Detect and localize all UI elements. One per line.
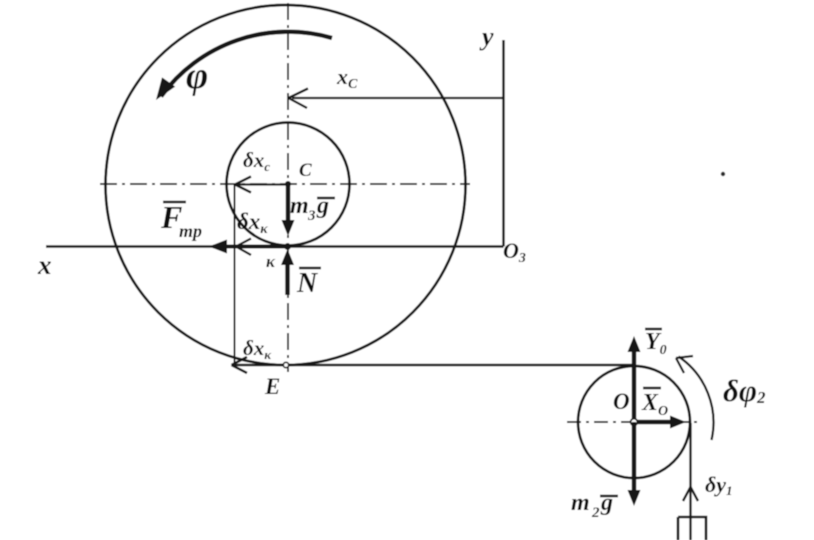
weight vector m2g	[628, 422, 641, 506]
weight block	[678, 517, 706, 540]
rope from pulley to weight	[689, 423, 691, 540]
label m2g	[571, 490, 618, 521]
svg-text:O: O	[613, 389, 630, 414]
large wheel circle	[106, 5, 466, 365]
weight vector m3g	[282, 184, 295, 236]
label k	[266, 252, 276, 271]
virtual displacement arrow delta-x-c	[235, 177, 288, 193]
svg-text:κ: κ	[266, 252, 276, 271]
label X0	[641, 388, 668, 419]
friction force vector F-tr	[209, 240, 288, 254]
node C center dot	[285, 181, 291, 187]
label E	[264, 374, 280, 399]
label Y0	[645, 329, 667, 358]
svg-text:E: E	[264, 374, 280, 399]
label delta-x-k	[237, 209, 268, 237]
reaction vector X0	[634, 416, 686, 429]
vertical dash-dot centerline of wheel	[287, 3, 289, 372]
label delta-x-c	[243, 148, 270, 174]
label C	[299, 160, 312, 181]
svg-text:m: m	[290, 193, 309, 219]
xC dimension arrow	[289, 89, 504, 109]
pulley circle	[578, 366, 690, 478]
rotation arc delta-phi-2	[676, 356, 713, 440]
pulley dash-dot centerline	[567, 421, 700, 423]
label O	[613, 389, 630, 414]
label xC	[336, 64, 358, 92]
y axis	[502, 40, 505, 247]
label N	[296, 268, 321, 299]
label x	[37, 250, 52, 280]
node E open dot	[283, 362, 288, 367]
construction vertical line from C displacement down to E level	[234, 184, 236, 365]
svg-text:y: y	[479, 22, 494, 51]
label phi	[186, 55, 208, 97]
inner hub circle	[227, 123, 350, 246]
label F-tr	[160, 199, 202, 241]
svg-text:φ: φ	[186, 55, 208, 97]
svg-text:N: N	[296, 268, 319, 299]
virtual displacement arrow delta-x-e at E	[232, 357, 287, 373]
svg-text:mp: mp	[179, 221, 202, 241]
rope from E to pulley	[289, 364, 634, 367]
reaction vector Y0	[628, 336, 641, 422]
contact node K dot	[284, 243, 291, 250]
virtual displacement arrowhead delta-x-k on x axis	[236, 239, 251, 256]
horizontal dash-dot centerline of wheel	[100, 183, 470, 185]
label O3 origin	[503, 238, 526, 266]
label y	[479, 22, 494, 51]
svg-text:g: g	[600, 490, 613, 516]
stray scan dot	[721, 172, 725, 176]
label delta-phi-2	[723, 373, 766, 408]
label delta-x-e	[243, 336, 272, 362]
svg-text:x: x	[37, 250, 52, 280]
node O pulley center	[631, 419, 638, 426]
label delta-y-1	[705, 472, 733, 498]
label m3g	[290, 193, 335, 224]
svg-text:2: 2	[591, 505, 600, 521]
virtual displacement arrowhead delta-y-1	[683, 487, 698, 501]
normal force vector N	[281, 249, 294, 295]
rotation arc arrow phi	[149, 32, 332, 105]
svg-text:C: C	[299, 160, 312, 181]
svg-text:m: m	[571, 490, 590, 516]
x axis	[46, 245, 504, 248]
svg-text:3: 3	[307, 208, 316, 224]
